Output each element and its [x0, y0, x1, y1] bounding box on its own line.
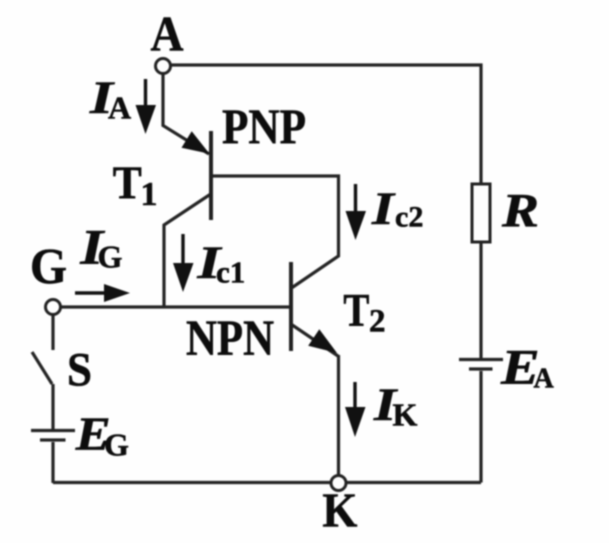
svg-text:T: T	[343, 284, 369, 336]
svg-text:1: 1	[141, 176, 158, 213]
svg-text:G: G	[98, 238, 123, 274]
svg-text:A: A	[151, 6, 184, 62]
svg-text:K: K	[322, 482, 357, 537]
svg-text:S: S	[67, 344, 92, 397]
svg-text:A: A	[534, 364, 555, 395]
svg-text:NPN: NPN	[186, 311, 274, 367]
svg-text:R: R	[501, 185, 539, 238]
svg-text:2: 2	[369, 303, 386, 339]
svg-text:c1: c1	[216, 255, 245, 290]
svg-text:I: I	[371, 183, 396, 235]
svg-text:K: K	[393, 397, 418, 433]
svg-text:G: G	[30, 240, 67, 296]
svg-text:PNP: PNP	[222, 98, 306, 154]
svg-text:G: G	[104, 427, 129, 463]
svg-text:c2: c2	[395, 201, 423, 234]
svg-text:A: A	[108, 90, 131, 126]
svg-text:T: T	[113, 157, 142, 209]
